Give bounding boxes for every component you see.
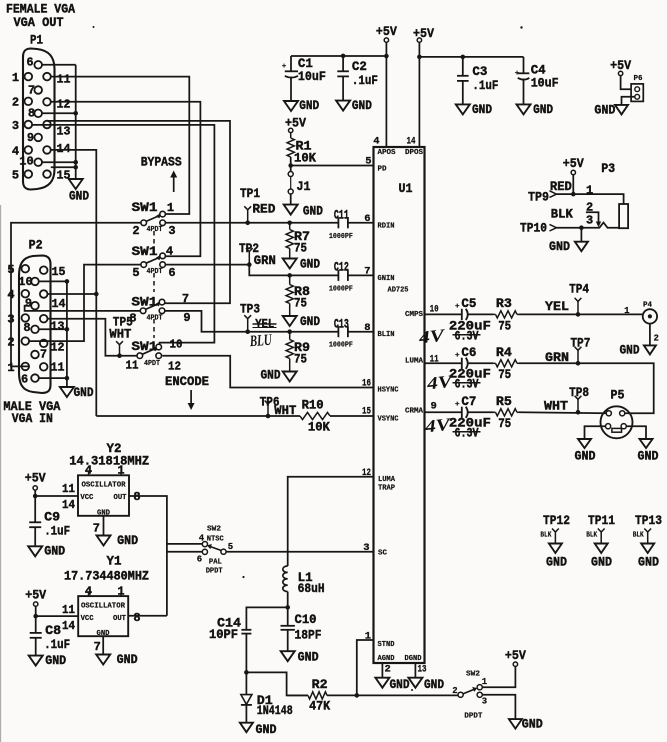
- svg-text:PD: PD: [378, 166, 387, 174]
- svg-text:5: 5: [228, 542, 233, 552]
- wire P1 pin12 bypass to SW1-2 upper throw: [51, 102, 201, 256]
- P1 pin 12: [43, 98, 51, 106]
- svg-text:10uF: 10uF: [298, 69, 326, 84]
- svg-text:GND: GND: [69, 189, 89, 204]
- svg-text:C7: C7: [461, 394, 476, 409]
- svg-text:75: 75: [498, 367, 511, 382]
- wire C14 junction to R2: [246, 672, 307, 695]
- connector P3 power jack body: [619, 204, 628, 228]
- wire +5V to SW2 throw1: [482, 666, 515, 687]
- wire +5V to Y1 VCC: [35, 606, 37, 616]
- svg-text:TP13: TP13: [635, 513, 662, 528]
- svg-text:AGND: AGND: [378, 655, 395, 663]
- connector P2 outline: [19, 256, 51, 394]
- svg-text:+5V: +5V: [25, 588, 46, 603]
- resistor R1 10K: [290, 133, 292, 138]
- P1 pin 7: [34, 86, 42, 94]
- svg-text:4: 4: [373, 136, 379, 148]
- svg-text:C6: C6: [461, 345, 476, 360]
- svg-text:10uF: 10uF: [531, 75, 559, 90]
- ground below C2: [336, 101, 350, 111]
- P2 pin 7: [31, 351, 39, 359]
- wire red row SW1-1 to C11: [165, 222, 338, 224]
- resistor R8: [287, 273, 292, 278]
- svg-text:OUT: OUT: [114, 494, 127, 502]
- svg-text:VCC: VCC: [80, 494, 93, 502]
- svg-text:SW1: SW1: [131, 294, 157, 309]
- switch SW2 NTSC/PAL: [202, 542, 207, 547]
- svg-text:1000PF: 1000PF: [329, 342, 353, 350]
- svg-text:GNIN: GNIN: [378, 275, 395, 283]
- svg-text:4: 4: [85, 585, 92, 599]
- svg-text:C10: C10: [295, 612, 317, 627]
- svg-text:GND: GND: [261, 368, 281, 383]
- svg-text:VGA IN: VGA IN: [12, 411, 53, 426]
- U1 AGND ground: [381, 663, 383, 678]
- svg-text:.1uF: .1uF: [472, 78, 498, 93]
- svg-text:5: 5: [132, 266, 139, 280]
- svg-text:75: 75: [498, 416, 511, 431]
- svg-text:+5V: +5V: [413, 26, 434, 41]
- svg-text:P1: P1: [30, 33, 43, 48]
- wire P2 pin1 to SW1-1 common: [11, 223, 141, 367]
- wire CRMA row: [425, 411, 462, 413]
- svg-text:14: 14: [62, 498, 75, 512]
- svg-text:2: 2: [12, 96, 19, 110]
- ground below C1: [284, 101, 298, 111]
- ground P5 left: [578, 439, 591, 448]
- svg-text:+: +: [455, 303, 460, 311]
- capacitor C7 220uF: [461, 407, 463, 418]
- wire Y1 OUT joins vertical: [128, 615, 167, 617]
- svg-text:BLK: BLK: [551, 207, 573, 222]
- scan speck: [411, 689, 413, 691]
- scan speck: [242, 576, 244, 578]
- svg-text:DPDT: DPDT: [464, 713, 482, 721]
- scan edge artifact left border: [0, 205, 2, 742]
- svg-text:TP1: TP1: [240, 186, 260, 201]
- svg-text:WHT: WHT: [109, 327, 131, 342]
- P1 pin 15: [43, 170, 51, 178]
- P1 pin 1: [25, 73, 33, 81]
- P1 pin 8: [34, 110, 42, 118]
- svg-text:6.3V: 6.3V: [455, 328, 479, 343]
- capacitor C9 .1uF: [34, 496, 36, 522]
- wire hsync row SW1-4 to U1: [162, 356, 373, 388]
- svg-text:GND: GND: [299, 98, 319, 113]
- svg-text:R10: R10: [302, 398, 324, 413]
- wire C11 to RDIN: [348, 222, 374, 224]
- svg-text:SW2: SW2: [207, 526, 221, 534]
- wire P2 pin8 to bus: [39, 328, 67, 330]
- wire +5V to P3 pin1: [572, 175, 574, 194]
- U1 pin 4 APOS wire from +5V: [385, 42, 387, 147]
- svg-text:6: 6: [197, 555, 202, 565]
- svg-text:16: 16: [362, 378, 371, 390]
- svg-text:4: 4: [199, 534, 205, 544]
- svg-text:SW1: SW1: [132, 200, 158, 215]
- svg-text:GND: GND: [256, 722, 277, 737]
- svg-text:GND: GND: [549, 239, 570, 254]
- wire +5V to Y2 VCC: [34, 490, 36, 496]
- wire STND riser: [357, 640, 374, 695]
- P1 pin 10: [34, 158, 42, 166]
- wire P1 ground bus vertical: [75, 65, 77, 179]
- capacitor C5 220uF: [461, 309, 463, 320]
- svg-text:R4: R4: [496, 345, 512, 360]
- ground below R9: [289, 359, 291, 372]
- wire P1 pin6 to ground bus: [42, 64, 76, 66]
- svg-text:+5V: +5V: [376, 24, 397, 39]
- P1 pin 5: [25, 170, 33, 178]
- svg-text:1: 1: [167, 201, 174, 215]
- svg-text:C13: C13: [334, 316, 349, 331]
- svg-text:P2: P2: [29, 238, 43, 253]
- svg-text:.1uF: .1uF: [44, 637, 70, 652]
- svg-text:1: 1: [624, 306, 630, 316]
- svg-text:C12: C12: [334, 260, 349, 275]
- svg-text:GND: GND: [522, 717, 543, 732]
- svg-text:GND: GND: [303, 204, 323, 219]
- svg-text:75: 75: [294, 296, 307, 311]
- svg-text:APOS: APOS: [378, 149, 396, 157]
- svg-text:VSYNC: VSYNC: [378, 416, 399, 424]
- ground below C3: [456, 104, 470, 114]
- svg-text:C2: C2: [352, 59, 367, 74]
- wire +5V to C3 C4: [419, 56, 523, 58]
- svg-text:+5V: +5V: [25, 471, 46, 486]
- svg-text:75: 75: [498, 318, 511, 333]
- svg-text:14: 14: [57, 142, 71, 156]
- svg-text:14: 14: [62, 619, 75, 633]
- P2 pin 11: [40, 363, 48, 371]
- wire Y2 OUT to SW2 NTSC: [129, 496, 167, 616]
- svg-text:3: 3: [482, 697, 487, 707]
- ground below P4: [644, 345, 656, 354]
- svg-text:LUMA: LUMA: [405, 358, 423, 366]
- svg-text:TP3: TP3: [240, 302, 260, 317]
- svg-text:GND: GND: [594, 103, 615, 118]
- svg-text:YEL: YEL: [545, 299, 569, 314]
- ground below C9: [28, 546, 42, 556]
- switch gang dashed link 2-3: [153, 273, 155, 292]
- svg-text:GND: GND: [638, 555, 659, 570]
- svg-text:PAL: PAL: [209, 559, 222, 567]
- svg-text:R3: R3: [496, 296, 512, 311]
- svg-text:VGA OUT: VGA OUT: [14, 15, 64, 30]
- wire vsync row to R10: [96, 415, 300, 417]
- svg-text:DPOS: DPOS: [405, 149, 423, 157]
- P1 pin 4: [25, 146, 33, 154]
- svg-text:GND: GND: [591, 555, 612, 570]
- ground at SW2: [509, 719, 522, 729]
- wire P1 pin8 to bus: [42, 112, 76, 114]
- wire P2 pin2 to SW1-2 common: [29, 265, 141, 342]
- svg-text:5: 5: [12, 169, 19, 183]
- svg-text:TP11: TP11: [588, 513, 615, 528]
- svg-text:6: 6: [168, 266, 175, 280]
- svg-text:BYPASS: BYPASS: [141, 154, 182, 169]
- P2 pin 3: [22, 314, 30, 322]
- svg-text:BLIN: BLIN: [378, 331, 395, 339]
- wire P6 to ground: [622, 97, 635, 105]
- svg-text:2: 2: [654, 334, 659, 344]
- svg-text:C11: C11: [334, 208, 349, 223]
- wire +5V to P6: [621, 76, 632, 90]
- svg-text:WHT: WHT: [544, 399, 568, 414]
- svg-text:VCC: VCC: [81, 615, 94, 623]
- svg-text:GND: GND: [45, 653, 66, 668]
- svg-text:GND: GND: [74, 385, 94, 400]
- wire P2 pin9 to SW1-3 common: [25, 306, 141, 311]
- ground symbol below P1: [69, 179, 83, 189]
- scan speck: [520, 26, 522, 28]
- svg-text:GND: GND: [298, 650, 319, 665]
- svg-text:2: 2: [452, 686, 457, 696]
- svg-text:TRAP: TRAP: [378, 485, 395, 493]
- P1 pin 2: [25, 98, 33, 106]
- svg-text:.1uF: .1uF: [44, 524, 70, 539]
- svg-text:11: 11: [62, 603, 75, 617]
- wire CMPS row: [425, 313, 462, 315]
- svg-text:STND: STND: [378, 641, 395, 649]
- switch SW1 section 1: [141, 220, 147, 226]
- svg-text:12: 12: [168, 360, 181, 374]
- svg-text:4V: 4V: [425, 371, 455, 394]
- P2 pin 2: [22, 337, 30, 345]
- ground symbol below P2: [60, 387, 74, 397]
- wire LUMA TRAP to L1: [288, 477, 374, 566]
- svg-text:C3: C3: [472, 64, 487, 79]
- svg-text:11: 11: [62, 482, 75, 496]
- connector P1 outline: [23, 49, 55, 190]
- wire C13 to BLIN: [348, 331, 374, 333]
- svg-text:13: 13: [418, 664, 427, 676]
- P1 pin 14: [43, 146, 51, 154]
- svg-text:3: 3: [12, 119, 19, 133]
- wire R10 to VSYNC: [330, 415, 374, 417]
- svg-text:BLU: BLU: [249, 332, 274, 351]
- svg-text:GND: GND: [390, 677, 410, 692]
- ground below C10: [281, 651, 295, 661]
- svg-text:10K: 10K: [294, 151, 316, 166]
- svg-text:10PF: 10PF: [209, 627, 238, 642]
- wire R2 to STND and SW2: [327, 694, 458, 696]
- svg-text:7: 7: [93, 522, 100, 536]
- wire P2 pin14 join vertical: [48, 293, 97, 295]
- svg-text:J1: J1: [297, 179, 311, 194]
- svg-text:NTSC: NTSC: [207, 536, 224, 544]
- resistor R10: [300, 412, 330, 419]
- U1 DGND ground: [414, 663, 416, 678]
- svg-text:68uH: 68uH: [298, 581, 325, 596]
- svg-text:ENCODE: ENCODE: [165, 374, 209, 389]
- svg-text:75: 75: [294, 241, 307, 256]
- wire +5V to C1 C2: [291, 55, 386, 57]
- svg-text:RDIN: RDIN: [378, 222, 395, 230]
- svg-text:13: 13: [51, 320, 65, 334]
- wire P1 pin3 bypass to SW1-4 upper throw: [32, 125, 214, 345]
- wire SW2 throw3 to ground: [482, 695, 515, 719]
- svg-text:15: 15: [57, 169, 71, 183]
- svg-text:RED: RED: [252, 202, 275, 217]
- P2 pin 10: [31, 278, 39, 286]
- svg-text:6: 6: [364, 213, 370, 225]
- svg-text:GND: GND: [472, 102, 492, 117]
- svg-text:4PDT: 4PDT: [144, 360, 160, 368]
- P1 pin 13: [43, 121, 51, 129]
- svg-text:Y1: Y1: [107, 554, 122, 569]
- ground below D1: [240, 723, 253, 733]
- wire C12 to GNIN: [348, 274, 374, 276]
- svg-text:14: 14: [407, 136, 416, 148]
- svg-text:DPDT: DPDT: [206, 568, 223, 576]
- svg-text:15: 15: [52, 265, 66, 279]
- jumper J1: [290, 166, 292, 172]
- svg-text:+5V: +5V: [563, 156, 584, 171]
- svg-text:9: 9: [183, 311, 190, 325]
- svg-text:12: 12: [51, 341, 65, 355]
- svg-text:8: 8: [364, 322, 370, 334]
- wire LUMA row: [425, 362, 462, 364]
- ground below J1: [284, 205, 298, 215]
- svg-text:OUT: OUT: [113, 615, 126, 623]
- svg-text:GND: GND: [352, 98, 372, 113]
- svg-text:7: 7: [182, 292, 189, 306]
- svg-text:10: 10: [19, 155, 33, 169]
- svg-text:TP10: TP10: [520, 221, 547, 236]
- svg-text:1: 1: [117, 464, 124, 478]
- svg-text:6.3V: 6.3V: [455, 376, 479, 391]
- svg-text:+: +: [455, 352, 460, 360]
- resistor R9: [287, 329, 292, 334]
- svg-text:GND: GND: [424, 677, 444, 692]
- svg-text:17.734480MHZ: 17.734480MHZ: [64, 569, 149, 584]
- P1 pin 3: [25, 121, 33, 129]
- P2 pin 8: [31, 326, 39, 334]
- svg-text:TP9: TP9: [528, 190, 549, 205]
- wire P2 ground bus vertical: [66, 281, 68, 387]
- capacitor C3 .1uF: [462, 57, 464, 76]
- ground below C4: [517, 104, 531, 114]
- inductor L1 68uH: [283, 566, 288, 592]
- capacitor C14 10PF: [241, 629, 251, 631]
- wire P5 left pin to ground: [585, 426, 606, 439]
- resistor R3 75: [467, 313, 493, 315]
- op-amp U1 AD725 encoder IC body: [374, 147, 425, 663]
- svg-text:+: +: [282, 63, 287, 71]
- P2 pin 1: [22, 363, 30, 371]
- wire TP10 to P3 sleeve contact: [581, 223, 619, 228]
- svg-text:GND: GND: [620, 343, 640, 358]
- svg-text:1000PF: 1000PF: [329, 285, 353, 293]
- svg-text:7: 7: [364, 266, 370, 278]
- svg-text:6.3V: 6.3V: [455, 425, 479, 440]
- switch SW2 DPDT bottom: [458, 692, 463, 697]
- Y1 pin7 ground: [102, 636, 104, 654]
- svg-text:P3: P3: [601, 161, 615, 176]
- wire P2 pin13 to SW1-4 common: [48, 319, 138, 356]
- ground below C8: [29, 656, 43, 666]
- capacitor C1 10uF electrolytic: [290, 56, 292, 71]
- svg-text:6: 6: [26, 56, 33, 70]
- svg-text:GND: GND: [44, 543, 65, 558]
- svg-text:+5V: +5V: [285, 116, 306, 131]
- svg-text:LUMA: LUMA: [378, 476, 395, 484]
- svg-text:BLK: BLK: [633, 532, 644, 540]
- svg-text:GND: GND: [117, 533, 138, 548]
- P1 pin 9: [34, 134, 42, 142]
- wire TP10 to ground: [580, 228, 582, 242]
- svg-text:13: 13: [57, 125, 71, 139]
- wire L1 junction to C14: [246, 607, 287, 629]
- svg-text:P5: P5: [611, 388, 625, 403]
- resistor R5 75: [467, 411, 493, 413]
- oscillator Y2 body: [78, 475, 129, 516]
- svg-text:WHT: WHT: [274, 403, 296, 418]
- svg-text:14: 14: [52, 297, 66, 311]
- capacitor C6 220uF: [461, 358, 463, 369]
- svg-text:SC: SC: [378, 550, 387, 558]
- resistor R7: [287, 221, 292, 226]
- svg-text:4: 4: [85, 464, 92, 478]
- svg-text:11: 11: [51, 361, 65, 375]
- U1 pin 14 DPOS wire from +5V: [418, 42, 420, 147]
- capacitor C8 .1uF: [35, 616, 37, 632]
- svg-text:SW1: SW1: [132, 244, 158, 259]
- svg-text:P6: P6: [634, 75, 643, 83]
- svg-text:14.31818MHZ: 14.31818MHZ: [69, 454, 149, 469]
- svg-text:1N4148: 1N4148: [257, 703, 293, 718]
- svg-text:C8: C8: [45, 623, 61, 638]
- svg-text:C5: C5: [461, 296, 476, 311]
- svg-text:GND: GND: [117, 652, 138, 667]
- ground below R7: [289, 249, 291, 259]
- P2 pin 5: [22, 265, 30, 273]
- wire green row SW1-2 to C12: [165, 265, 338, 276]
- wire R4 to P5 right pin: [519, 363, 654, 413]
- P2 pin 6: [31, 374, 39, 382]
- svg-text:9: 9: [431, 401, 437, 413]
- svg-text:1000PF: 1000PF: [329, 233, 353, 241]
- wire P2 pin6 to bus: [39, 377, 67, 379]
- svg-text:11: 11: [126, 359, 139, 373]
- P2 pin 4: [22, 290, 30, 298]
- capacitor C4 10uF electrolytic: [523, 57, 525, 73]
- svg-text:8: 8: [23, 321, 30, 335]
- P2 pin 9: [31, 302, 39, 310]
- svg-text:OSCILLATOR: OSCILLATOR: [82, 482, 126, 490]
- wire P2 pin10 to ground bus: [39, 280, 67, 282]
- P2 pin 12: [40, 340, 48, 348]
- switch SW1 section 2: [141, 262, 147, 268]
- P1 pin 11: [43, 73, 51, 81]
- svg-text:8: 8: [28, 107, 35, 121]
- svg-text:7: 7: [40, 348, 47, 362]
- svg-text:GND: GND: [300, 314, 320, 329]
- svg-text:2: 2: [132, 224, 139, 238]
- ground below R8: [289, 304, 291, 317]
- svg-text:TP4: TP4: [569, 281, 589, 296]
- svg-text:1: 1: [12, 71, 19, 85]
- svg-text:4: 4: [12, 144, 19, 158]
- svg-text:47K: 47K: [309, 699, 330, 714]
- ground below TP10: [575, 242, 588, 252]
- oscillator Y1 body: [78, 596, 128, 636]
- svg-text:SW1: SW1: [131, 339, 157, 354]
- svg-text:7: 7: [94, 640, 101, 654]
- svg-text:8: 8: [133, 611, 140, 625]
